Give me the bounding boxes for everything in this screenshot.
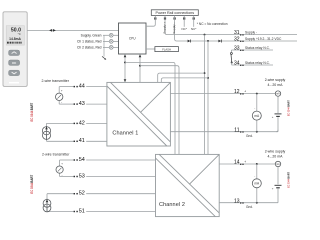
svg-text:BART: BART [30, 175, 34, 183]
svg-text:31: 31 [234, 30, 240, 36]
svg-text:Channel 1: Channel 1 [112, 130, 138, 136]
svg-text:EC 0344: EC 0344 [30, 111, 34, 122]
svg-text:°C: °C [18, 32, 21, 36]
svg-text:EC 0344: EC 0344 [30, 183, 34, 194]
svg-text:FLASH: FLASH [162, 47, 171, 51]
svg-text:2-wire supply: 2-wire supply [265, 78, 286, 82]
svg-text:Gnd.: Gnd. [246, 134, 253, 138]
svg-text:51: 51 [79, 208, 85, 214]
svg-text:CPU: CPU [129, 37, 136, 41]
svg-text:12: 12 [234, 89, 240, 95]
svg-text:mA: mA [276, 92, 280, 95]
svg-text:* NC = No connection: * NC = No connection [197, 22, 228, 26]
svg-text:Gnd.: Gnd. [246, 205, 253, 209]
svg-text:Ch 2 status, Red: Ch 2 status, Red [77, 46, 102, 50]
svg-text:BART: BART [30, 103, 34, 111]
svg-text:Ch 1 status, Red: Ch 1 status, Red [77, 40, 102, 44]
svg-text:11: 11 [234, 127, 239, 133]
svg-text:2-wire transmitter: 2-wire transmitter [42, 153, 70, 157]
svg-text:BART: BART [286, 172, 290, 179]
svg-text:-: - [62, 173, 63, 177]
svg-text:BART: BART [286, 100, 290, 107]
svg-text:2-wire supply: 2-wire supply [265, 149, 286, 153]
svg-text:2-wire transmitter: 2-wire transmitter [42, 79, 70, 83]
svg-text:Supply +19.2...31.2 VDC: Supply +19.2...31.2 VDC [245, 37, 282, 41]
svg-text:33: 33 [234, 46, 240, 52]
svg-text:EC 0344: EC 0344 [286, 179, 290, 188]
svg-text:4...20 mA: 4...20 mA [268, 154, 284, 158]
svg-text:42: 42 [79, 120, 85, 126]
svg-text:mA: mA [276, 163, 280, 166]
svg-text:Channel 2: Channel 2 [159, 202, 185, 208]
svg-text:NC*: NC* [182, 27, 188, 31]
svg-text:13: 13 [234, 198, 240, 204]
svg-text:Status relay N.C.: Status relay N.C. [245, 61, 270, 65]
svg-text:Supply, Green: Supply, Green [81, 33, 102, 37]
svg-text:32: 32 [234, 37, 240, 43]
svg-text:52: 52 [79, 191, 85, 197]
svg-text:53: 53 [79, 173, 85, 179]
svg-text:43: 43 [79, 101, 85, 107]
svg-text:44: 44 [79, 84, 85, 90]
svg-text:Supply +: Supply + [163, 21, 167, 33]
svg-text:EC 0344: EC 0344 [286, 107, 290, 116]
svg-text:Supply -: Supply - [172, 22, 176, 33]
svg-text:NC*: NC* [191, 27, 197, 31]
svg-text:-: - [254, 174, 255, 178]
svg-text:+: + [244, 90, 246, 94]
svg-text:Supply -: Supply - [245, 30, 257, 34]
svg-text:+: + [244, 160, 246, 164]
svg-text:4...20 mA: 4...20 mA [268, 83, 284, 87]
svg-text:-: - [254, 107, 255, 111]
svg-text:Status relay N.C.: Status relay N.C. [245, 46, 270, 50]
svg-text:+: + [272, 115, 274, 119]
svg-text:14.8mA: 14.8mA [9, 37, 21, 41]
svg-text:34: 34 [234, 61, 240, 67]
svg-text:-: - [61, 100, 62, 104]
svg-text:Power Rail connections: Power Rail connections [156, 11, 195, 15]
svg-text:41: 41 [79, 138, 85, 144]
svg-text:+: + [272, 186, 274, 190]
svg-text:14: 14 [234, 160, 240, 166]
svg-text:54: 54 [79, 157, 85, 163]
